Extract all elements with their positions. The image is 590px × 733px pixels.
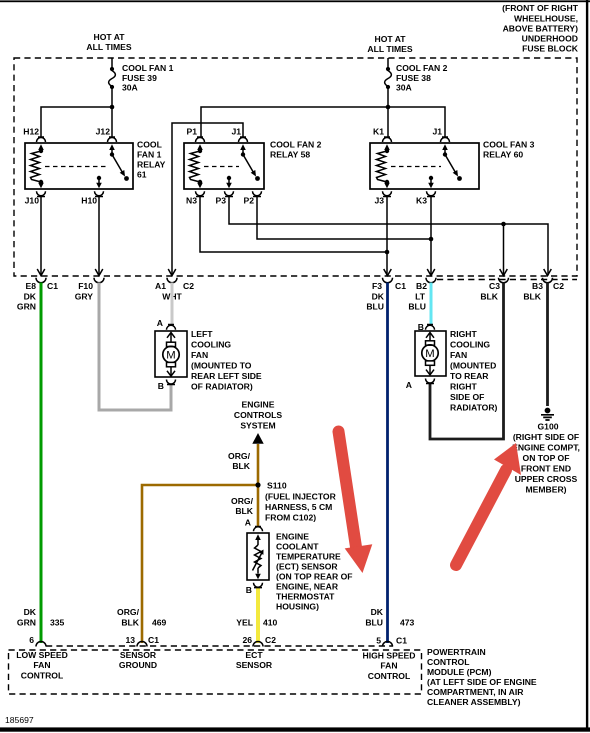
svg-text:F10: F10 bbox=[78, 281, 93, 291]
wire label ORG/BLK 469 bbox=[117, 607, 167, 628]
wire fuse2 down to K1 bbox=[387, 107, 389, 137]
svg-text:FROM C102): FROM C102) bbox=[265, 513, 316, 523]
terminal A1/C2 bbox=[155, 269, 194, 291]
PCM terminal 13 C1 bbox=[125, 635, 159, 647]
svg-text:COOLING: COOLING bbox=[450, 340, 490, 350]
svg-text:UPPER CROSS: UPPER CROSS bbox=[515, 474, 578, 484]
svg-text:CLEANER ASSEMBLY): CLEANER ASSEMBLY) bbox=[427, 697, 521, 707]
svg-text:469: 469 bbox=[152, 618, 167, 628]
svg-text:COOL: COOL bbox=[137, 140, 162, 150]
node S110 splice bbox=[255, 481, 336, 523]
wire branch to terminal C3 bbox=[503, 224, 505, 275]
svg-text:HIGH SPEED: HIGH SPEED bbox=[362, 651, 415, 661]
pin B right fan bbox=[418, 322, 435, 341]
svg-text:30A: 30A bbox=[396, 83, 412, 93]
wire fuse1 to J12 bbox=[111, 107, 113, 137]
wire ORG/BLK engine controls to S110 bbox=[257, 444, 260, 485]
red arrow pointing to G100 bbox=[456, 443, 521, 565]
svg-text:335: 335 bbox=[50, 618, 65, 628]
svg-text:P2: P2 bbox=[243, 196, 254, 206]
pin J1 relay 58 bbox=[231, 127, 247, 155]
node P2/K3 junction bbox=[429, 237, 434, 242]
svg-text:DK: DK bbox=[24, 292, 37, 302]
wire label DK GRN bbox=[17, 292, 37, 312]
svg-text:COOLING: COOLING bbox=[191, 340, 231, 350]
pin B left fan bbox=[158, 367, 176, 391]
svg-text:(MOUNTED TO: (MOUNTED TO bbox=[191, 361, 252, 371]
svg-text:J1: J1 bbox=[432, 127, 442, 137]
right border line bbox=[586, 0, 588, 731]
svg-text:E8: E8 bbox=[25, 281, 36, 291]
wire fuse2 bus to P1 and J1 of relay 60 bbox=[201, 107, 445, 137]
svg-text:C3: C3 bbox=[489, 281, 500, 291]
svg-text:ON TOP OF: ON TOP OF bbox=[523, 453, 570, 463]
svg-text:M: M bbox=[425, 348, 434, 360]
svg-text:FUSE BLOCK: FUSE BLOCK bbox=[522, 44, 579, 54]
svg-text:H12: H12 bbox=[23, 127, 39, 137]
svg-text:OF RADIATOR): OF RADIATOR) bbox=[191, 382, 253, 392]
svg-text:(FRONT OF RIGHT: (FRONT OF RIGHT bbox=[502, 3, 579, 13]
mechanical linkage relay 61 bbox=[45, 166, 108, 168]
wire H10 to terminal F10 bbox=[98, 197, 100, 276]
svg-text:13: 13 bbox=[125, 635, 135, 645]
wire ORG/BLK S110 to ECT A bbox=[257, 485, 260, 527]
wire K3 to terminal B2 bbox=[430, 197, 432, 276]
svg-text:HARNESS, 5 CM: HARNESS, 5 CM bbox=[265, 502, 332, 512]
svg-text:J3: J3 bbox=[374, 196, 384, 206]
svg-text:(FUEL INJECTOR: (FUEL INJECTOR bbox=[265, 492, 337, 502]
svg-text:COMPARTMENT, IN AIR: COMPARTMENT, IN AIR bbox=[427, 687, 524, 697]
svg-text:DK: DK bbox=[24, 607, 37, 617]
terminal C3 bbox=[489, 269, 509, 291]
label: HOT AT ALL TIMES (left) bbox=[86, 32, 131, 52]
svg-text:RIGHT: RIGHT bbox=[450, 382, 477, 392]
svg-text:B: B bbox=[158, 381, 164, 391]
svg-text:N3: N3 bbox=[186, 196, 197, 206]
svg-text:S110: S110 bbox=[267, 481, 287, 491]
svg-text:ABOVE BATTERY): ABOVE BATTERY) bbox=[503, 24, 579, 34]
switch contact P3 relay 58 bbox=[226, 176, 232, 188]
svg-text:61: 61 bbox=[137, 170, 147, 180]
pin H12 relay 61 bbox=[23, 127, 45, 152]
svg-text:A1: A1 bbox=[155, 281, 166, 291]
ECT sensor box bbox=[247, 532, 353, 612]
svg-text:LEFT: LEFT bbox=[191, 329, 213, 339]
svg-text:(ECT) SENSOR: (ECT) SENSOR bbox=[276, 562, 338, 572]
svg-text:BLK: BLK bbox=[523, 292, 541, 302]
label POWERTRAIN CONTROL MODULE bbox=[427, 647, 537, 707]
svg-text:THERMOSTAT: THERMOSTAT bbox=[276, 592, 335, 602]
wire label DK GRN 335 bbox=[17, 607, 65, 628]
terminal F3/C1 bbox=[372, 269, 406, 291]
svg-text:30A: 30A bbox=[122, 83, 138, 93]
motor symbol right fan bbox=[422, 341, 438, 366]
PCM terminal 5 C1 bbox=[376, 636, 407, 647]
svg-text:SENSOR: SENSOR bbox=[120, 650, 157, 660]
svg-text:BLU: BLU bbox=[366, 302, 384, 312]
wire label DK BLU 473 bbox=[365, 607, 414, 628]
svg-text:ORG/: ORG/ bbox=[231, 496, 254, 506]
fuse F39 COOL FAN 1 30A bbox=[109, 58, 174, 107]
relay K58 COOL FAN 2 RELAY box bbox=[184, 140, 322, 190]
svg-text:CONTROLS: CONTROLS bbox=[234, 410, 282, 420]
svg-text:26: 26 bbox=[242, 635, 252, 645]
terminal B2 bbox=[416, 269, 436, 291]
wire ORG/BLK 469 S110 to sensor ground bbox=[142, 485, 258, 643]
wire P2 to K3 riser bbox=[257, 197, 431, 240]
svg-text:REAR LEFT SIDE: REAR LEFT SIDE bbox=[191, 371, 262, 381]
svg-text:J10: J10 bbox=[25, 196, 40, 206]
wire J1 relay58 up-left-down to terminal A1 bbox=[172, 123, 243, 276]
pin A right fan bbox=[406, 365, 435, 390]
svg-text:FRONT END: FRONT END bbox=[521, 464, 571, 474]
switch contact H10 relay 61 bbox=[96, 176, 102, 188]
svg-text:C2: C2 bbox=[265, 635, 276, 645]
svg-text:SYSTEM: SYSTEM bbox=[240, 421, 275, 431]
pin K1 relay 60 bbox=[373, 127, 392, 152]
svg-text:B: B bbox=[418, 322, 424, 332]
svg-text:ALL TIMES: ALL TIMES bbox=[367, 44, 412, 54]
label: fuse block location text bbox=[502, 3, 579, 54]
wire DK GRN 335 low speed fan control bbox=[40, 283, 43, 644]
svg-text:GROUND: GROUND bbox=[119, 660, 157, 670]
svg-text:HOT AT: HOT AT bbox=[93, 32, 125, 42]
motor symbol left fan bbox=[163, 342, 179, 367]
wire LT BLU B2 to right fan B bbox=[430, 283, 433, 325]
svg-text:ENGINE COMPT,: ENGINE COMPT, bbox=[512, 443, 580, 453]
svg-text:J1: J1 bbox=[231, 127, 241, 137]
bottom border bar bbox=[0, 727, 590, 731]
svg-text:5: 5 bbox=[376, 636, 381, 646]
svg-text:(AT LEFT SIDE OF ENGINE: (AT LEFT SIDE OF ENGINE bbox=[427, 677, 537, 687]
PCM connector dashed line bbox=[46, 645, 393, 647]
svg-text:G100: G100 bbox=[537, 422, 558, 432]
svg-text:A: A bbox=[157, 318, 163, 328]
top border line bbox=[0, 0, 590, 2]
svg-text:K1: K1 bbox=[373, 127, 384, 137]
pin K3 relay 60 bbox=[416, 191, 436, 205]
terminal F10 bbox=[78, 269, 104, 291]
svg-text:C1: C1 bbox=[395, 281, 406, 291]
pin P2 relay 58 bbox=[243, 191, 261, 205]
label HIGH SPEED FAN CONTROL bbox=[362, 651, 415, 682]
svg-text:FAN: FAN bbox=[191, 350, 208, 360]
svg-text:C2: C2 bbox=[183, 281, 194, 291]
svg-text:185697: 185697 bbox=[5, 715, 34, 725]
svg-text:MEMBER): MEMBER) bbox=[525, 485, 566, 495]
svg-text:CONTROL: CONTROL bbox=[368, 671, 411, 681]
svg-text:K3: K3 bbox=[416, 196, 427, 206]
svg-text:B3: B3 bbox=[532, 281, 543, 291]
node: fuse1 output junction bbox=[110, 105, 115, 110]
PCM module dashed box bbox=[9, 650, 422, 694]
svg-text:DK: DK bbox=[372, 292, 385, 302]
svg-text:CONTROL: CONTROL bbox=[21, 671, 64, 681]
svg-text:ENGINE: ENGINE bbox=[276, 532, 309, 542]
pin A ECT sensor bbox=[245, 518, 263, 546]
pin A left fan bbox=[157, 318, 176, 342]
mechanical linkage relay 60 bbox=[391, 166, 441, 168]
pin N3 relay 58 bbox=[186, 183, 205, 206]
wire J3 to terminal F3 bbox=[386, 197, 388, 276]
PCM terminal 6 bbox=[29, 635, 46, 647]
svg-text:C2: C2 bbox=[553, 281, 564, 291]
coil relay 60 bbox=[377, 149, 390, 184]
coil relay 58 bbox=[190, 149, 203, 184]
svg-text:SENSOR: SENSOR bbox=[236, 660, 273, 670]
svg-text:C1: C1 bbox=[396, 636, 407, 646]
mechanical linkage relay 58 bbox=[204, 166, 239, 168]
wire P3 to terminals C3 and B3 bbox=[229, 197, 548, 276]
svg-text:BLU: BLU bbox=[365, 618, 383, 628]
svg-text:MODULE (PCM): MODULE (PCM) bbox=[427, 667, 492, 677]
svg-text:COOL FAN 2: COOL FAN 2 bbox=[270, 140, 322, 150]
label: HOT AT ALL TIMES (right) bbox=[367, 34, 412, 54]
svg-text:RELAY: RELAY bbox=[137, 160, 166, 170]
svg-text:COOL FAN 3: COOL FAN 3 bbox=[483, 140, 535, 150]
svg-text:RELAY 58: RELAY 58 bbox=[270, 150, 310, 160]
switch contact K3 relay 60 bbox=[428, 176, 434, 188]
pin J3 relay 60 bbox=[374, 183, 391, 206]
wire label ORG/BLK lower bbox=[231, 496, 254, 516]
switch blade relay 60 bbox=[443, 152, 462, 181]
ground G100 bbox=[512, 408, 580, 495]
svg-text:F3: F3 bbox=[372, 281, 382, 291]
wire N3 to node at J3 bbox=[200, 197, 387, 253]
svg-text:FAN: FAN bbox=[33, 660, 50, 670]
svg-text:COOLANT: COOLANT bbox=[276, 542, 319, 552]
fuse F38 COOL FAN 2 30A bbox=[385, 58, 448, 107]
svg-text:COOL FAN 1: COOL FAN 1 bbox=[122, 63, 174, 73]
svg-text:P3: P3 bbox=[215, 196, 226, 206]
svg-text:(ON TOP REAR OF: (ON TOP REAR OF bbox=[276, 572, 353, 582]
svg-text:HOUSING): HOUSING) bbox=[276, 602, 319, 612]
pin H10 relay 61 bbox=[81, 191, 103, 205]
svg-text:M: M bbox=[166, 350, 175, 362]
svg-text:FAN 1: FAN 1 bbox=[137, 150, 162, 160]
svg-text:TO REAR: TO REAR bbox=[450, 371, 489, 381]
svg-text:FUSE 38: FUSE 38 bbox=[396, 73, 431, 83]
svg-text:6: 6 bbox=[29, 635, 34, 645]
svg-text:FUSE 39: FUSE 39 bbox=[122, 73, 157, 83]
label SENSOR GROUND bbox=[119, 650, 157, 670]
connector C2 extra dashed line under right terminals bbox=[437, 279, 577, 281]
svg-text:GRY: GRY bbox=[75, 292, 94, 302]
node P3/C3 junction bbox=[501, 222, 506, 227]
left cooling fan motor M box bbox=[155, 329, 262, 392]
svg-text:CONTROL: CONTROL bbox=[427, 657, 470, 667]
svg-text:BLK: BLK bbox=[235, 506, 253, 516]
svg-text:ORG/: ORG/ bbox=[117, 607, 140, 617]
underhood fuse block dashed box bbox=[14, 58, 577, 276]
node ENGINE CONTROLS SYSTEM off-page arrow bbox=[234, 400, 282, 444]
svg-text:B: B bbox=[246, 585, 252, 595]
wire BLK B3 to ground G100 bbox=[546, 283, 549, 407]
svg-text:RELAY 60: RELAY 60 bbox=[483, 150, 523, 160]
svg-text:410: 410 bbox=[263, 618, 278, 628]
svg-text:ALL TIMES: ALL TIMES bbox=[86, 42, 131, 52]
svg-text:UNDERHOOD: UNDERHOOD bbox=[522, 34, 578, 44]
relay K60 COOL FAN 3 RELAY box bbox=[370, 140, 535, 190]
svg-text:POWERTRAIN: POWERTRAIN bbox=[427, 647, 486, 657]
svg-text:YEL: YEL bbox=[236, 618, 253, 628]
svg-text:BLU: BLU bbox=[408, 302, 426, 312]
svg-text:TEMPERATURE: TEMPERATURE bbox=[276, 552, 341, 562]
svg-text:HOT AT: HOT AT bbox=[374, 34, 406, 44]
svg-text:WHEELHOUSE,: WHEELHOUSE, bbox=[514, 14, 578, 24]
svg-text:B2: B2 bbox=[416, 281, 427, 291]
pin P3 relay 58 bbox=[215, 191, 233, 205]
wire label YEL 410 bbox=[236, 618, 277, 628]
svg-text:LOW SPEED: LOW SPEED bbox=[16, 650, 68, 660]
right cooling fan motor M box bbox=[415, 329, 498, 413]
svg-text:BLK: BLK bbox=[232, 461, 250, 471]
svg-text:A: A bbox=[245, 518, 251, 528]
svg-text:ENGINE, NEAR: ENGINE, NEAR bbox=[276, 582, 339, 592]
label ECT SENSOR bbox=[236, 650, 273, 670]
svg-text:FAN: FAN bbox=[450, 350, 467, 360]
svg-text:RIGHT: RIGHT bbox=[450, 329, 477, 339]
svg-text:SIDE OF: SIDE OF bbox=[450, 392, 484, 402]
switch blade relay 58 bbox=[241, 152, 260, 181]
wire fuse1 to H12 bbox=[41, 107, 112, 137]
relay K61 COOL FAN 1 RELAY box bbox=[25, 140, 166, 190]
wire GRY left fan B to F10 bbox=[99, 283, 171, 411]
wire DK BLU 473 high speed fan control bbox=[386, 283, 389, 644]
svg-text:GRN: GRN bbox=[17, 302, 36, 312]
terminal E8/C1 bbox=[25, 269, 58, 291]
wire BLK right fan A to C3 bbox=[430, 283, 504, 440]
wire label ORG/BLK upper bbox=[228, 451, 251, 471]
svg-text:ORG/: ORG/ bbox=[228, 451, 251, 461]
svg-text:A: A bbox=[406, 380, 412, 390]
svg-text:C1: C1 bbox=[47, 281, 58, 291]
svg-text:(RIGHT SIDE OF: (RIGHT SIDE OF bbox=[513, 432, 579, 442]
node: fuse2 output junction bbox=[386, 105, 391, 110]
node N3/J3 junction bbox=[385, 250, 390, 255]
red arrow pointing to ECT area bbox=[339, 432, 373, 574]
svg-text:BLK: BLK bbox=[480, 292, 498, 302]
svg-text:473: 473 bbox=[400, 618, 415, 628]
thermistor ECT sensor bbox=[253, 545, 264, 571]
terminal B3/C2 bbox=[532, 269, 564, 291]
svg-text:LT: LT bbox=[415, 292, 426, 302]
svg-text:H10: H10 bbox=[81, 196, 97, 206]
svg-text:C1: C1 bbox=[148, 635, 159, 645]
svg-text:FAN: FAN bbox=[380, 661, 397, 671]
svg-text:P1: P1 bbox=[186, 127, 197, 137]
svg-text:(MOUNTED: (MOUNTED bbox=[450, 361, 496, 371]
wire J10 to terminal E8 bbox=[40, 197, 42, 276]
svg-text:ENGINE: ENGINE bbox=[242, 400, 275, 410]
PCM terminal 26 C2 bbox=[242, 635, 276, 647]
svg-text:COOL FAN 2: COOL FAN 2 bbox=[396, 63, 448, 73]
pin B ECT sensor bbox=[246, 568, 263, 595]
pin J10 relay 61 bbox=[25, 182, 46, 206]
svg-text:DK: DK bbox=[371, 607, 384, 617]
coil relay 61 bbox=[31, 149, 44, 184]
svg-text:ECT: ECT bbox=[245, 650, 263, 660]
wire YEL 410 ECT B to PCM bbox=[256, 588, 260, 644]
switch blade relay 61 bbox=[110, 152, 129, 181]
wire label LT BLU bbox=[408, 292, 426, 312]
wire label DK BLU bbox=[366, 292, 384, 312]
wire WHT A1 to left fan A bbox=[171, 283, 174, 325]
pin P1 relay 58 bbox=[186, 127, 204, 152]
pin J12 relay 61 bbox=[96, 127, 117, 155]
label LOW SPEED FAN CONTROL bbox=[16, 650, 68, 681]
svg-text:RADIATOR): RADIATOR) bbox=[450, 403, 498, 413]
svg-text:J12: J12 bbox=[96, 127, 111, 137]
pin J1 relay 60 bbox=[432, 127, 449, 155]
svg-text:BLK: BLK bbox=[121, 618, 139, 628]
svg-text:GRN: GRN bbox=[17, 618, 36, 628]
